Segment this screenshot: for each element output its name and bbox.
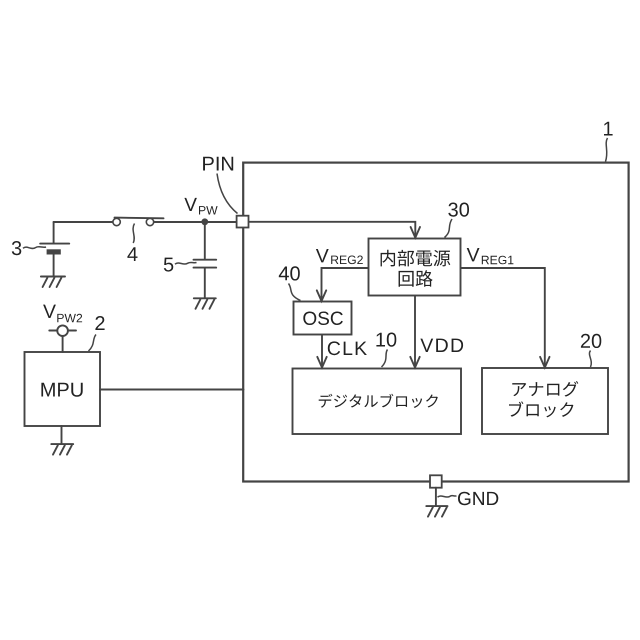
wire capacitor 5 to ground: [204, 268, 206, 298]
VPW2 terminal circle: [57, 325, 68, 336]
wire MPU to device outline: [100, 389, 244, 391]
VPW2 terminal bar: [49, 330, 76, 332]
label GND: [458, 492, 498, 506]
leader line for PIN: [217, 174, 238, 214]
label VREG1 main: [467, 248, 480, 261]
ref numeral 10: [376, 333, 396, 347]
node VPW junction dot: [201, 218, 208, 225]
arrowhead CLK into digital block 10: [317, 357, 326, 368]
text 内部電源 (box 30 line 1): [381, 250, 451, 267]
PIN terminal square: [237, 216, 249, 228]
text 回路 (box 30 line 2): [399, 270, 433, 287]
leader line for 3: [23, 247, 46, 249]
label VPW2 subscript: [57, 314, 82, 323]
text デジタルブロック (box 10): [319, 394, 438, 408]
text アナログ (box 20 line 1): [512, 381, 578, 397]
battery 3 long plate: [40, 243, 69, 245]
leader line for 2: [89, 335, 97, 352]
wire MPU to ground: [61, 426, 63, 444]
label OSC: [303, 312, 343, 326]
leader line for 4: [133, 224, 134, 244]
wire PIN to internal power supply 30: [249, 222, 415, 237]
arrowhead into internal power supply 30: [411, 227, 420, 238]
wire GND terminal to ground: [435, 488, 437, 506]
label VDD: [420, 339, 463, 352]
wire battery positive vertical: [53, 222, 55, 243]
arrowhead VDD into digital block 10: [410, 357, 419, 368]
leader line for 5: [175, 262, 197, 264]
switch 4 contact right: [146, 218, 153, 225]
label VPW2 main: [43, 305, 56, 318]
ground under battery 3: [41, 277, 65, 288]
arrowhead into OSC 40: [317, 290, 326, 301]
label VPW subscript: [199, 206, 218, 214]
leader line for 30: [445, 219, 453, 238]
internal power supply box 30: [369, 239, 461, 296]
switch 4 contact left: [113, 218, 120, 225]
wire node VPW down to capacitor 5: [204, 222, 206, 259]
text ブロック (box 20 line 2): [509, 401, 573, 417]
OSC box 40: [294, 302, 352, 335]
ref numeral 5: [164, 258, 174, 272]
ref numeral 3: [12, 241, 21, 255]
wire VREG1 from box 30 to analog block 20: [461, 268, 545, 365]
ground under capacitor 5: [194, 298, 216, 309]
label VREG2 main: [316, 249, 329, 262]
wire switch to PIN terminal: [154, 221, 236, 223]
capacitor 5 plates: [194, 260, 217, 268]
switch 4 arm: [115, 217, 164, 220]
digital block box 10: [293, 369, 462, 435]
leader line for GND: [438, 496, 457, 498]
leader line for 20: [589, 351, 591, 368]
wire VDD from box 30 to digital block 10: [414, 296, 416, 365]
leader line for 1: [606, 138, 608, 162]
ref numeral 1: [604, 122, 613, 136]
ref numeral 30: [448, 203, 469, 217]
wire battery 3 to ground: [53, 255, 55, 277]
battery 3 thick plate: [47, 249, 61, 254]
wire battery to switch: [54, 221, 113, 223]
label VREG2 subscript: [331, 256, 363, 265]
wire CLK from OSC 40 to digital block 10: [321, 335, 323, 365]
leader line for 40: [289, 284, 301, 301]
arrowhead into analog block 20: [540, 357, 549, 368]
ref numeral 4: [127, 247, 137, 261]
analog block box 20: [482, 368, 608, 434]
ground under GND terminal: [426, 506, 447, 516]
label VREG1 subscript: [482, 256, 514, 265]
label CLK: [328, 341, 367, 355]
GND terminal square: [430, 475, 442, 487]
ref numeral 2: [95, 316, 104, 330]
label MPU: [41, 383, 82, 397]
wire VREG2 from box 30 to OSC 40: [322, 268, 369, 298]
leader line for 10: [382, 350, 388, 368]
semiconductor device outline box 1: [243, 163, 628, 482]
MPU box 2: [25, 352, 101, 426]
label PIN: [203, 157, 233, 171]
label VPW main: [184, 198, 197, 211]
ground under MPU: [51, 444, 73, 455]
wire VPW2 to MPU: [62, 336, 64, 352]
ref numeral 40: [279, 266, 300, 280]
ref numeral 20: [581, 334, 601, 348]
